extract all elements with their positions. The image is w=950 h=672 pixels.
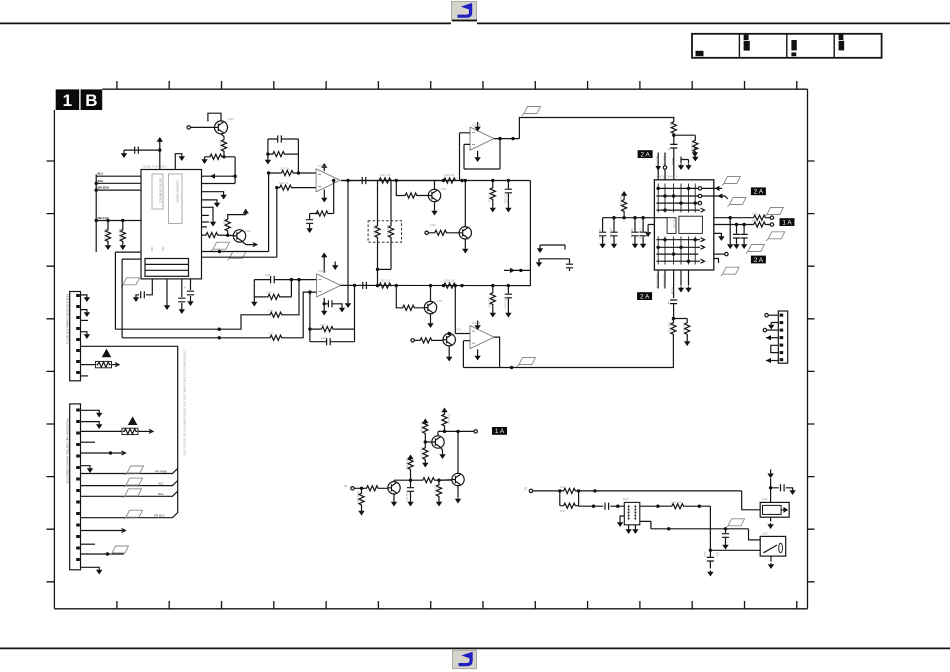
wire bus1 right corner down	[529, 181, 531, 286]
capacitor C8	[271, 276, 275, 283]
wire 50	[477, 122, 479, 156]
capacitor drop	[613, 218, 615, 243]
signal arrow 3	[701, 238, 705, 242]
box 15	[780, 321, 784, 324]
U2 top pins	[658, 153, 665, 180]
junction 57	[667, 527, 670, 530]
ground 37	[733, 243, 739, 249]
wire bus 2	[341, 284, 531, 286]
svg-text:2 A: 2 A	[640, 151, 650, 158]
resistor R71	[365, 486, 379, 491]
resistor R32	[275, 186, 278, 189]
ground	[105, 244, 111, 250]
filter L1	[624, 502, 640, 524]
ground 61	[617, 521, 623, 527]
junction 9	[332, 179, 335, 182]
wire 40	[377, 269, 379, 285]
wire 81	[714, 259, 719, 264]
dashed module with resistors	[368, 221, 402, 242]
box 31	[76, 420, 80, 423]
svg-text:T202: T202	[430, 224, 436, 227]
svg-text:T302: T302	[456, 329, 462, 332]
ground 5	[179, 308, 185, 314]
capacitor C5	[278, 135, 282, 142]
ground emitter T7	[393, 494, 395, 501]
wire 86	[686, 319, 688, 341]
box 10	[839, 34, 844, 40]
junction 40	[672, 134, 675, 137]
junction 16	[376, 284, 379, 287]
svg-text:+5V TXT: +5V TXT	[662, 156, 665, 166]
supply for U1 top	[159, 141, 161, 170]
junction 56	[698, 505, 701, 508]
ground 41	[685, 164, 691, 170]
svg-text:2335: 2335	[321, 337, 327, 340]
junction 12	[442, 179, 445, 182]
ground 17	[462, 248, 468, 254]
resistor R45	[377, 181, 379, 270]
svg-text:IC200B: IC200B	[472, 124, 481, 127]
op-amp D	[470, 326, 494, 349]
svg-text:3206: 3206	[223, 219, 227, 225]
box 44	[122, 428, 138, 434]
capacitor C3	[178, 298, 185, 302]
box 3	[453, 650, 477, 669]
resistor R38	[423, 447, 428, 461]
label flag 5	[765, 208, 784, 217]
wire emitter	[221, 134, 224, 157]
wire 104	[81, 491, 178, 496]
wire 51	[115, 252, 141, 329]
supply in	[770, 470, 772, 473]
wire 91	[766, 337, 778, 339]
wire 114	[432, 437, 441, 447]
wire 96	[81, 332, 87, 333]
signal arrow 6	[115, 363, 119, 367]
label flag 10	[124, 478, 143, 487]
wire 5	[739, 34, 834, 58]
left ticks	[47, 161, 55, 582]
black tag 2A bottom right	[751, 256, 766, 264]
resistor R13	[490, 187, 495, 201]
junction 47	[443, 430, 446, 433]
wire 61	[354, 285, 356, 341]
arrowhead 3	[718, 193, 723, 198]
wire 88	[771, 323, 778, 324]
resistor R9	[315, 211, 329, 216]
junction 45	[409, 479, 412, 482]
resistor R14	[434, 230, 448, 235]
wire 87	[768, 314, 778, 316]
label flag 14	[726, 519, 745, 528]
X1 wires	[81, 295, 87, 296]
capacitor C25	[781, 484, 785, 491]
svg-text:3011: 3011	[560, 510, 566, 513]
resistor R33	[359, 492, 364, 506]
svg-text:+: +	[668, 302, 670, 306]
wire 111	[452, 474, 461, 484]
box 18	[780, 344, 784, 347]
input loop C+R at opamp C +IN	[254, 279, 316, 281]
ground 48	[84, 311, 90, 317]
ground 9	[210, 221, 216, 227]
wire 99	[81, 422, 100, 423]
junction 8	[266, 152, 269, 155]
black tag 2A right	[751, 187, 766, 195]
black tag 2A bottom	[637, 292, 652, 300]
ground 30b	[536, 261, 542, 267]
arrowhead 1	[210, 174, 215, 179]
box 25	[76, 338, 80, 341]
ground 29	[474, 355, 480, 361]
ground 69	[768, 563, 774, 569]
ground 43	[692, 156, 698, 162]
junction 50	[593, 489, 596, 492]
resistor R29	[671, 322, 676, 336]
arrowhead 5	[766, 358, 771, 363]
svg-text:3012 150: 3012 150	[671, 501, 682, 504]
ground 56	[407, 501, 413, 507]
svg-text:PROCESSOR AND CONTROL BOARD CO: PROCESSOR AND CONTROL BOARD CONNECTOR	[66, 418, 70, 484]
box 13	[81, 89, 103, 110]
wire 126	[784, 507, 789, 513]
ground 57	[436, 501, 442, 507]
resistor R58 drop	[491, 284, 494, 287]
svg-text:C2085 BC848B 3/102 T2086 BC848: C2085 BC848B 3/102 T2086 BC848B C2087 10…	[183, 350, 186, 457]
U2 inner sub-box center	[679, 216, 703, 233]
junction 55	[656, 505, 659, 508]
wire with flag	[81, 553, 125, 555]
resistor R2	[120, 229, 125, 243]
resistor R21	[401, 305, 415, 310]
capacitor C10	[327, 338, 331, 345]
wire 75	[702, 196, 728, 199]
ground 36	[727, 243, 733, 249]
ground 67	[789, 489, 795, 495]
junction 20	[218, 336, 221, 339]
resistor R17	[267, 294, 281, 299]
resistor R24	[622, 199, 627, 213]
resistor R3	[209, 154, 223, 159]
electrolytic cap	[709, 550, 711, 568]
svg-text:3713 47K: 3713 47K	[420, 447, 423, 458]
svg-text:1035: 1035	[762, 533, 768, 536]
wire 45	[459, 228, 468, 238]
resistor R49 base T4	[425, 231, 428, 234]
output network opamp A	[341, 180, 444, 182]
wire hook 2	[539, 259, 570, 271]
wire 77	[736, 225, 738, 244]
wire 110	[393, 480, 395, 481]
warning triangle	[102, 349, 112, 358]
junction 39	[657, 246, 660, 249]
supply arrow 4	[621, 191, 627, 197]
svg-text:T206: T206	[245, 230, 251, 233]
signal arrow 9	[122, 529, 126, 533]
ground 64	[722, 544, 728, 550]
resistor R31	[267, 171, 270, 174]
junction 25	[308, 327, 311, 330]
ground 11	[321, 197, 327, 203]
junction 36	[612, 216, 615, 219]
svg-text:3330: 3330	[266, 292, 272, 295]
resistor R37	[423, 421, 428, 435]
arrowhead 4	[766, 335, 771, 340]
wire 69	[414, 339, 443, 341]
junction 4	[233, 175, 236, 178]
wire hook 1	[540, 245, 565, 250]
ground 13	[345, 302, 351, 308]
resistor R15	[269, 312, 283, 317]
wire 115	[437, 431, 439, 435]
junction 43	[106, 552, 109, 555]
svg-text:3609 4K7: 3609 4K7	[619, 196, 622, 207]
label flag 12	[124, 510, 143, 519]
svg-text:2 A: 2 A	[754, 257, 764, 264]
junction 37	[729, 216, 732, 219]
pin 5	[763, 328, 766, 331]
supply arrow 1	[157, 137, 163, 143]
svg-text:3210 2K2: 3210 2K2	[488, 192, 491, 203]
wire 56	[334, 262, 336, 265]
junction 19	[218, 328, 221, 331]
wire to relay K2	[749, 529, 761, 540]
resistor R81	[640, 505, 711, 507]
transistor T6	[443, 334, 455, 346]
label flag 9	[125, 466, 144, 475]
svg-text:IC300A: IC300A	[318, 270, 327, 273]
resistor R39	[442, 413, 447, 427]
junction 35	[657, 187, 660, 190]
wire 121	[634, 506, 636, 520]
junction 52	[577, 489, 580, 492]
wire 34	[297, 139, 299, 173]
wire 30	[269, 172, 317, 174]
svg-text:22: 22	[524, 487, 527, 491]
wire 74	[658, 184, 695, 213]
right mid row 2 with resistor	[714, 224, 770, 226]
ground 31	[599, 243, 605, 249]
label flag 3	[722, 177, 741, 186]
wire 14	[136, 295, 139, 296]
svg-text:3207 10K: 3207 10K	[380, 174, 391, 177]
wire 42	[434, 181, 436, 190]
svg-text:1000: 1000	[716, 552, 719, 558]
junction 32	[448, 332, 451, 335]
wire 117	[444, 412, 446, 414]
wire 92	[771, 345, 779, 352]
junction 31	[454, 284, 457, 287]
signal arrow 5	[701, 259, 705, 263]
resistor R20	[443, 283, 457, 288]
svg-text:2 A: 2 A	[754, 189, 764, 196]
box 26	[76, 349, 80, 352]
resistor R46	[378, 181, 392, 270]
svg-text:+: +	[184, 286, 186, 290]
capacitor C4	[187, 291, 194, 295]
svg-text:1: 1	[63, 91, 72, 110]
label flag 7	[721, 267, 740, 276]
box 42	[76, 547, 80, 550]
relay K1	[760, 502, 789, 517]
wire 31	[277, 187, 316, 189]
base chain T9: resistor up	[425, 441, 432, 443]
wire long row to opamp A -IN	[202, 188, 277, 258]
ground 50	[96, 412, 102, 418]
ground 45	[685, 287, 691, 293]
ground 24	[427, 322, 433, 328]
ground 8	[214, 202, 220, 208]
ground 38	[741, 243, 747, 249]
label flag	[522, 107, 541, 116]
box 21	[76, 294, 80, 297]
box 9	[791, 52, 796, 56]
wire 90	[767, 329, 779, 331]
box 38	[76, 501, 80, 504]
ground emitter T8	[457, 486, 459, 497]
wire 60	[310, 341, 355, 343]
junction 46	[437, 479, 440, 482]
svg-text:1030: 1030	[762, 498, 768, 501]
svg-text:BCL: BCL	[158, 492, 164, 496]
input pin	[351, 487, 354, 490]
ground 18	[474, 126, 480, 132]
wire 46	[464, 181, 466, 227]
feedback R+C opamp C	[309, 292, 311, 342]
label flag 11	[123, 489, 142, 498]
op-amp B	[470, 127, 494, 150]
black tag 2A	[638, 150, 653, 158]
svg-text:IC200A: IC200A	[318, 165, 327, 168]
pin 6	[474, 430, 477, 433]
wire 94	[81, 310, 87, 311]
top back button	[452, 2, 478, 22]
resistor R28	[693, 139, 698, 153]
svg-text:3309 10K: 3309 10K	[444, 280, 455, 283]
parallel resistor pair	[533, 490, 742, 492]
wire 108	[354, 487, 388, 489]
junction 34	[519, 269, 522, 272]
box 33	[76, 443, 80, 446]
svg-text:T205: T205	[228, 118, 234, 121]
right mid row 1 with resistor	[714, 217, 770, 219]
arrowhead 2	[715, 186, 720, 191]
resistor R11	[388, 225, 393, 239]
U1 control interface sub-block	[168, 174, 182, 223]
svg-text:3230 1K: 3230 1K	[280, 168, 290, 171]
capacitor C21	[407, 488, 414, 492]
box 11	[839, 41, 845, 51]
wire 24	[202, 200, 218, 202]
U1 right stub rows to ground	[202, 192, 224, 194]
capacitor C13	[566, 264, 573, 268]
resistor R14	[121, 219, 124, 222]
junction 41	[672, 317, 675, 320]
wire 78	[743, 225, 745, 244]
resistor down	[424, 442, 426, 462]
box 27	[76, 360, 80, 363]
wire 33	[268, 153, 299, 155]
svg-text:2610 47u: 2610 47u	[630, 228, 633, 239]
ground 68	[767, 523, 773, 529]
wire 48	[460, 133, 471, 181]
capacitor C41	[362, 177, 366, 184]
resistor R27	[671, 121, 676, 135]
box 24	[76, 327, 80, 330]
junction 60	[769, 486, 772, 489]
box 28	[76, 371, 80, 374]
resistor R74 down	[438, 480, 440, 500]
box 1	[452, 2, 477, 21]
box 6	[744, 35, 749, 41]
arrowhead on pin 1	[655, 166, 661, 171]
svg-text:2702 22n: 2702 22n	[405, 491, 408, 502]
wire left bus	[95, 175, 97, 253]
box 36	[76, 478, 80, 481]
resistor R16	[269, 335, 283, 340]
wire 16	[181, 279, 183, 297]
box 39	[76, 512, 80, 515]
ground 34	[640, 243, 646, 249]
wire short bus at 270	[504, 269, 530, 271]
wire 123	[628, 525, 630, 528]
wire into U1 rows	[234, 157, 236, 184]
ground 55	[391, 501, 397, 507]
junction 53	[592, 505, 595, 508]
junction 15	[376, 268, 379, 271]
junction 28	[442, 284, 445, 287]
wire 3	[459, 658, 472, 665]
pin 1	[698, 187, 701, 190]
svg-text:2013: 2013	[703, 552, 706, 558]
emitter T9	[440, 447, 442, 453]
resistor R4	[205, 233, 219, 238]
svg-text:3621: 3621	[752, 220, 758, 223]
svg-text:2330: 2330	[265, 274, 271, 277]
svg-text:3331: 3331	[268, 310, 274, 313]
bottom rule	[0, 647, 950, 649]
IC U2 outline	[654, 180, 713, 270]
wire 62	[424, 303, 433, 313]
black tag 1A right	[780, 218, 795, 226]
svg-text:3519 1K8: 3519 1K8	[104, 228, 108, 240]
signal arrow 4	[701, 245, 705, 249]
U1 bottom sub-block	[145, 259, 189, 277]
svg-text:+: +	[668, 148, 670, 152]
capacitor C19	[741, 234, 748, 238]
grid label 1 B	[56, 89, 102, 110]
transistor T4	[459, 227, 471, 239]
svg-text:+BY 5 TX: +BY 5 TX	[656, 156, 659, 167]
ground	[120, 244, 126, 250]
svg-text:3209 10K: 3209 10K	[444, 174, 455, 177]
wire 76	[729, 218, 731, 243]
wire 12	[107, 221, 109, 245]
connector X7 right	[778, 311, 787, 363]
resistor R22	[490, 292, 495, 306]
junction 2	[158, 148, 161, 151]
collector load resistor	[444, 413, 446, 431]
wire 39	[374, 180, 396, 182]
label flag 8	[746, 245, 765, 254]
box 8	[791, 40, 796, 50]
wire 65	[507, 286, 509, 312]
resistor R42	[671, 504, 685, 509]
svg-text:+5V AT/TXT: +5V AT/TXT	[662, 274, 665, 288]
bottom back button	[453, 650, 477, 669]
svg-text:2310 100n: 2310 100n	[504, 297, 507, 309]
ground 40	[678, 164, 684, 170]
